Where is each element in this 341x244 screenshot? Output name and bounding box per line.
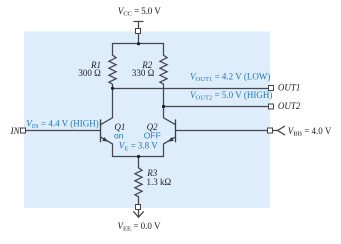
- IN base wire: [26, 130, 101, 132]
- svg-text:IN: IN: [10, 126, 21, 136]
- VBB stub wire: [273, 130, 278, 132]
- terminal square VBB: [268, 128, 273, 133]
- top rail wire: [113, 43, 164, 45]
- Vcc terminal T-bar: [134, 21, 143, 23]
- emitter rail wire: [113, 156, 164, 158]
- Q2 collector wire: [164, 107, 175, 125]
- svg-text:on: on: [114, 131, 124, 141]
- junction node emitter/R3: [137, 155, 140, 158]
- shaded circuit panel: [24, 32, 270, 209]
- terminal square Vcc: [136, 29, 141, 34]
- Q1 emitter wire: [101, 137, 112, 156]
- resistor R1: [109, 44, 116, 89]
- svg-text:OUT2: OUT2: [278, 101, 301, 111]
- VBB arrow head: [278, 126, 285, 134]
- Q1 collector wire: [101, 89, 112, 125]
- transistor Q1 base bar: [100, 119, 102, 142]
- svg-text:OFF: OFF: [144, 131, 161, 141]
- terminal square IN: [21, 128, 26, 133]
- OUT2 wire: [164, 106, 269, 108]
- Q2 emitter arrow: [168, 137, 174, 142]
- resistor R3: [135, 157, 142, 205]
- terminal square Vee: [136, 205, 141, 210]
- svg-text:300 Ω: 300 Ω: [78, 68, 101, 78]
- Q1 emitter arrow: [102, 137, 108, 142]
- junction node R2/OUT2: [162, 105, 165, 108]
- Vee stem wire: [138, 210, 140, 217]
- svg-text:OUT1: OUT1: [278, 83, 301, 93]
- Vcc stem wire: [138, 22, 140, 44]
- Q2 emitter wire: [164, 137, 175, 156]
- OUT1 wire: [113, 88, 269, 90]
- VBB base wire: [176, 130, 268, 132]
- resistor R2: [160, 44, 167, 107]
- terminal square OUT2: [269, 104, 274, 109]
- svg-text:1.3 kΩ: 1.3 kΩ: [147, 177, 172, 187]
- transistor Q2 base bar: [175, 119, 177, 142]
- svg-text:330 Ω: 330 Ω: [132, 68, 155, 78]
- junction node Vcc/rail: [137, 42, 140, 45]
- junction node R1/OUT1: [111, 87, 114, 90]
- Vee arrow head: [134, 212, 144, 218]
- terminal square OUT1: [269, 86, 274, 91]
